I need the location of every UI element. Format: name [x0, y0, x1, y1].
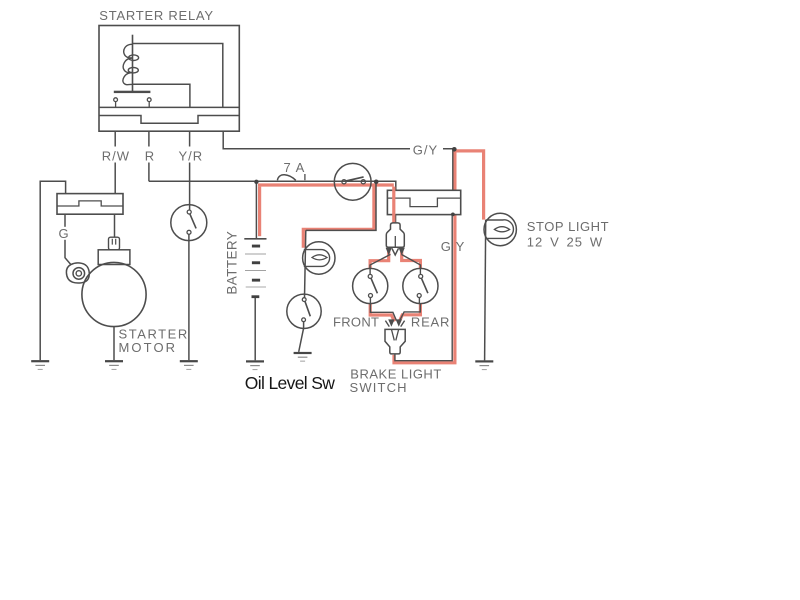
- starter relay coil: [123, 44, 139, 84]
- starter relay contact pin 1: [114, 98, 118, 108]
- starter relay coil armature wire: [132, 35, 134, 92]
- wire: main switch junction to oil indicator lamp: [306, 182, 376, 231]
- battery BT1: [244, 239, 266, 298]
- starter relay contact circuit top: [133, 44, 223, 108]
- stop light bulb L2: [484, 213, 516, 245]
- svg-text:Y/R: Y/R: [179, 148, 204, 163]
- wire: Y/R from starter relay to starter button: [189, 131, 191, 210]
- brake connector block CB2: [387, 190, 460, 214]
- ground: stop light: [475, 360, 493, 370]
- wire: red highlight from main switch junction to oil indicator lamp: [303, 185, 374, 248]
- wire: main bus from R wire to brake connector block: [149, 181, 396, 190]
- wire: ground run from magnetic switch case: [40, 181, 65, 360]
- wire: stop light to ground: [485, 220, 486, 361]
- ground: starter motor: [105, 360, 123, 370]
- label G: [57, 227, 73, 240]
- wire: rear switch terminal stubs: [419, 268, 420, 303]
- connector plug P2 (brake light switch lower): [385, 329, 405, 354]
- magnetic switch connector block CB1: [57, 194, 123, 215]
- wire: red highlight feed through brake connector block: [392, 187, 395, 223]
- fuse F1 7A: [277, 174, 305, 180]
- wire: R/W from starter relay to magnetic switch: [114, 131, 116, 193]
- wire: brake switch return lower run: [395, 215, 452, 361]
- wire: red highlight rear brake switch output: [399, 304, 420, 322]
- junction: main switch output: [374, 180, 379, 185]
- wire: oil level switch to ground: [299, 322, 304, 352]
- wire: red highlighted G/Y return from brake light switch to stop light: [394, 151, 484, 363]
- svg-text:STOP LIGHT: STOP LIGHT: [527, 219, 609, 234]
- wire: connector to front brake switch: [370, 254, 391, 268]
- wire: starter button to ground: [188, 234, 190, 360]
- wire: R from starter relay to main bus: [148, 131, 150, 181]
- svg-text:G: G: [441, 239, 452, 254]
- starter relay box: [99, 26, 239, 132]
- svg-text:FRONT: FRONT: [333, 315, 379, 330]
- svg-text:R/W: R/W: [102, 148, 130, 163]
- junction: brake connector block bottom: [451, 213, 455, 217]
- starter motor M: [82, 262, 146, 326]
- starter relay coil output wire: [133, 84, 190, 107]
- svg-text:G/Y: G/Y: [413, 143, 438, 158]
- wire: G lead from magnetic switch to ground lug: [65, 214, 71, 264]
- svg-text:REAR: REAR: [411, 315, 450, 330]
- wire: starter motor to ground: [113, 327, 115, 361]
- junction: main bus at battery tap: [254, 180, 258, 184]
- wire: G/Y from starter relay contact to stop light junction: [223, 131, 454, 149]
- wire: battery negative to ground: [254, 298, 256, 360]
- wire: red highlight front brake switch feed: [370, 248, 389, 268]
- ground: oil level switch: [294, 352, 312, 362]
- main switch S1 (ignition): [334, 163, 371, 200]
- svg-text:R: R: [145, 148, 155, 163]
- svg-text:7 A: 7 A: [284, 160, 306, 175]
- wire: through oil indicator lamp to oil level switch: [305, 230, 306, 297]
- connector plug P1 (brake light switch upper): [386, 223, 404, 247]
- connector bullets P1 (arrows): [386, 248, 405, 255]
- starter button switch S2: [171, 205, 207, 241]
- wire: red highlight battery positive branch to main switch (vertical drop): [258, 187, 261, 237]
- label G/Y top: [410, 142, 443, 158]
- rear brake switch S5: [403, 268, 438, 303]
- ground: starter button: [180, 360, 198, 370]
- wire: red highlight front brake switch output: [370, 304, 394, 322]
- starter motor brush housing: [98, 250, 130, 265]
- ground lug on starter motor: [66, 263, 89, 283]
- junction: G/Y wire at stop light tap: [452, 147, 457, 152]
- svg-text:Oil Level Sw: Oil Level Sw: [245, 373, 335, 393]
- svg-text:SWITCH: SWITCH: [350, 380, 408, 395]
- svg-text:MOTOR: MOTOR: [119, 340, 178, 355]
- ground: battery negative: [246, 360, 264, 370]
- wire: front switch terminal stubs: [369, 268, 371, 303]
- svg-text:BATTERY: BATTERY: [224, 231, 239, 295]
- svg-text:G: G: [59, 226, 70, 241]
- starter relay armature bar: [114, 91, 151, 93]
- oil indicator lamp L1: [303, 242, 335, 274]
- wire: black feed below brake connector block: [395, 215, 397, 223]
- starter relay terminal plate step: [99, 116, 239, 124]
- starter motor terminal connector: [109, 237, 120, 250]
- oil level switch S3: [287, 294, 321, 328]
- wire: front brake switch to lower connector: [370, 304, 396, 321]
- label Y/R: [175, 147, 204, 163]
- wire: rear brake switch to lower connector: [400, 304, 421, 321]
- wire: magnetic switch to starter motor terminal: [114, 214, 116, 237]
- ground: magnetic switch case: [31, 360, 49, 370]
- starter relay contact pin 2: [147, 98, 151, 108]
- wire: brake switch return upper run: [452, 149, 454, 190]
- wire: connector to rear brake switch: [401, 254, 420, 268]
- starter relay terminal plate: [99, 106, 239, 108]
- svg-text:STARTER RELAY: STARTER RELAY: [99, 8, 214, 23]
- wire: red highlight rear brake switch feed: [402, 248, 421, 268]
- svg-text:Y: Y: [456, 239, 466, 254]
- svg-text:12 V 25 W: 12 V 25 W: [527, 234, 603, 249]
- label R/W: [98, 147, 132, 163]
- front brake switch S4: [353, 268, 388, 303]
- connector bullets P2 (arrows): [388, 319, 402, 326]
- label R: [141, 147, 157, 163]
- wire: battery positive drop: [255, 181, 257, 238]
- wire: red highlight main bus to brake connector: [258, 183, 394, 186]
